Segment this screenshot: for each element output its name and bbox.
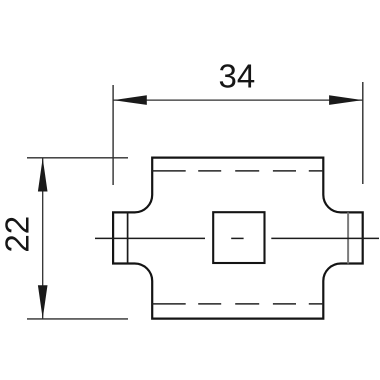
horizontal centerline right segment <box>271 237 379 239</box>
dimension 22: dimension line <box>42 158 44 319</box>
square hole <box>213 212 264 263</box>
dimension 22: bottom arrowhead <box>38 285 48 319</box>
dimension 34: left extension line <box>112 85 114 185</box>
horizontal centerline left segment <box>95 237 205 239</box>
svg-text:34: 34 <box>219 58 256 95</box>
dimension 34: left arrowhead <box>113 95 147 105</box>
hidden line (dashed) upper <box>152 170 323 172</box>
svg-text:22: 22 <box>0 216 35 253</box>
dimension 34: right extension line <box>362 82 364 184</box>
dimension 22: top extension line <box>27 157 128 159</box>
dimension 22: bottom extension line <box>27 318 128 320</box>
dimension 34: dimension line <box>113 99 363 101</box>
centerline short center dash <box>231 237 243 239</box>
right tab inner edge line <box>347 212 349 263</box>
hidden line (dashed) lower <box>152 303 323 305</box>
part outline (cross-shaped plate, front view) <box>113 158 363 319</box>
dimension 34: right arrowhead <box>329 95 363 105</box>
dimension 22: top arrowhead <box>38 158 48 192</box>
left tab inner edge line <box>127 212 129 263</box>
